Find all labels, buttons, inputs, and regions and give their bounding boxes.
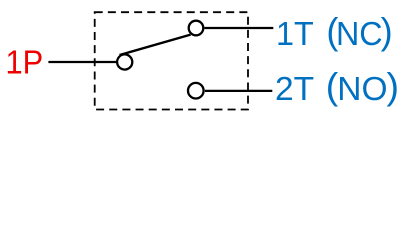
wire to 2T NO terminal <box>205 90 272 92</box>
switch lever (moving contact arm) <box>120 35 191 55</box>
throw contact circle NO <box>188 83 204 99</box>
pole common contact circle <box>117 54 132 69</box>
svg-text:2T (NO): 2T (NO) <box>275 65 399 108</box>
svg-text:1T (NC): 1T (NC) <box>276 10 393 52</box>
switch body dashed outline <box>95 12 248 109</box>
wire from pole 1P <box>48 61 117 63</box>
svg-text:1P: 1P <box>6 44 44 81</box>
throw contact circle NC <box>189 21 204 36</box>
wire to 1T NC terminal <box>205 27 274 29</box>
